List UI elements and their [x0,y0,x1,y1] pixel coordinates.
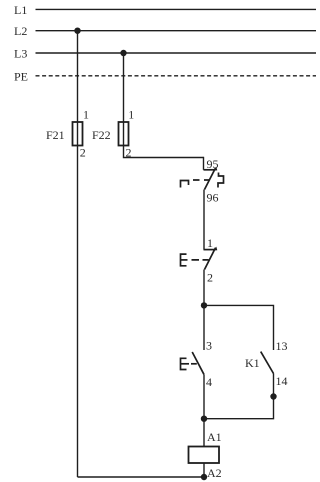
wire between stop button and branch node [203,270,205,306]
node coil A2 connection [201,474,207,480]
svg-text:2: 2 [126,145,132,159]
fuse F21 [73,122,83,146]
wire K1 contact bottom to junction [204,374,274,419]
wire bottom return to coil A2 [78,476,205,478]
bus PE [36,75,317,77]
svg-text:L3: L3 [14,47,27,61]
node branch split [201,302,207,308]
wire start button bottom to coil [203,374,205,446]
stop button actuator E [181,254,187,266]
overload relay contact 95-96 [181,167,224,190]
svg-text:2: 2 [207,270,213,284]
node L3-F22 junction [120,50,126,56]
wire coil A2 to bottom [203,463,205,478]
stop pushbutton contact 1-2 [181,247,218,270]
node branch rejoin [201,416,207,422]
stop actuator dashed link [192,259,209,261]
svg-text:2: 2 [80,145,86,159]
wire from L2 through F21 down left side [77,31,79,477]
svg-text:95: 95 [207,157,219,171]
svg-text:L1: L1 [14,3,27,17]
svg-text:F22: F22 [92,128,111,142]
overload trip element [181,181,189,188]
svg-text:1: 1 [83,108,89,122]
contactor auxiliary contact K1 13-14 [261,352,274,374]
svg-text:K1: K1 [245,356,260,370]
start pushbutton contact 3-4 [181,352,204,374]
svg-text:4: 4 [206,375,212,389]
svg-text:3: 3 [206,338,212,352]
wire overload top terminal [203,157,205,170]
overload actuator dashed link [193,179,209,181]
wire between overload and stop button [203,190,205,250]
bus L3 [36,52,317,54]
overload release hook [218,173,224,188]
coil K1 [189,447,220,464]
svg-text:1: 1 [128,108,134,122]
svg-text:A2: A2 [207,466,222,480]
bus L1 [36,8,317,10]
bus L2 [36,30,317,32]
svg-text:PE: PE [14,69,28,83]
start button actuator E [181,358,187,369]
svg-text:13: 13 [276,339,288,353]
svg-text:L2: L2 [14,24,27,38]
wire start button top terminal [203,305,205,350]
node on K1 branch [270,393,276,399]
svg-text:1: 1 [207,236,213,250]
wire branch to K1 contact [204,305,274,350]
wire from L3 through F22 to overload [124,53,204,158]
svg-text:A1: A1 [207,430,222,444]
node L2-F21 junction [74,28,80,34]
fuse F22 [119,122,129,146]
svg-text:96: 96 [207,190,219,204]
svg-text:14: 14 [276,374,288,388]
svg-text:F21: F21 [46,128,65,142]
start actuator dashed link [191,363,197,365]
